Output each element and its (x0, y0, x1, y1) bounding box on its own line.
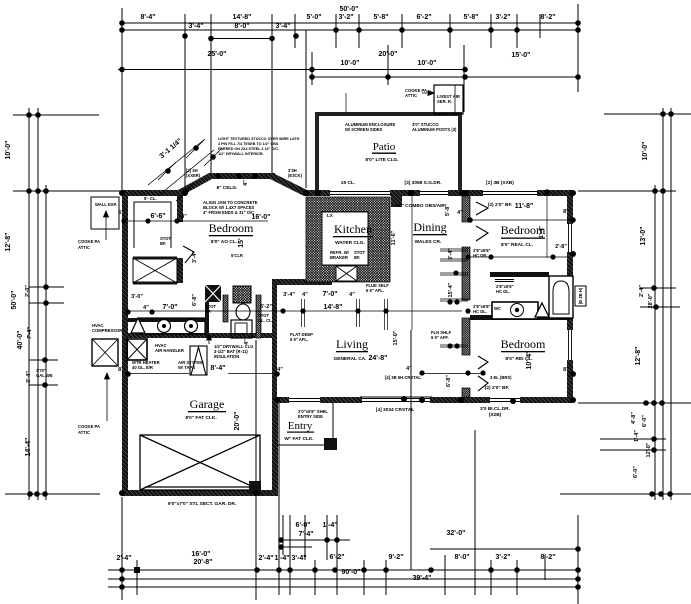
interior dim lines (128, 93, 573, 374)
svg-text:(B 2B H): (B 2B H) (578, 287, 583, 304)
svg-text:COOKE PA: COOKE PA (78, 239, 100, 244)
svg-text:10'-4": 10'-4" (526, 351, 533, 370)
bathtub (549, 276, 573, 318)
svg-text:50'-0": 50'-0" (340, 6, 359, 13)
svg-text:W/ SCREEN SIDES: W/ SCREEN SIDES (345, 127, 383, 132)
svg-text:8'0" LITE CLG.: 8'0" LITE CLG. (365, 157, 398, 163)
top row dots (119, 20, 125, 26)
svg-text:1'-4": 1'-4" (322, 522, 337, 529)
wall pier below top wall (391, 196, 402, 207)
svg-text:5'- CL.: 5'- CL. (144, 196, 157, 201)
svg-text:9'-2": 9'-2" (388, 554, 403, 561)
svg-text:20'-0": 20'-0" (234, 412, 241, 431)
svg-text:HC DR.: HC DR. (473, 253, 487, 258)
bath-left counter (139, 318, 205, 334)
svg-text:4": 4" (181, 214, 187, 220)
svg-text:10'-0": 10'-0" (642, 142, 649, 161)
left col dots (26, 112, 32, 118)
svg-text:INSULATION: INSULATION (214, 354, 239, 359)
svg-text:11'-8": 11'-8" (515, 203, 534, 210)
svg-text:GAL WE: GAL WE (36, 373, 53, 378)
svg-text:11'-6": 11'-6" (391, 230, 397, 245)
svg-text:6'-2": 6'-2" (329, 554, 344, 561)
svg-text:4": 4" (302, 292, 308, 298)
svg-text:2'-8": 2'-8" (555, 244, 567, 250)
svg-text:8" CELG.: 8" CELG. (217, 185, 238, 191)
right col dots (660, 111, 666, 117)
svg-text:8": 8" (118, 367, 124, 373)
medicine cabinet bump (575, 286, 586, 306)
diagonal bay dimension lines (148, 139, 222, 201)
attic ladder rect (190, 346, 207, 375)
svg-text:6'-0": 6'-0" (642, 415, 648, 427)
svg-text:15'-4": 15'-4" (448, 282, 454, 297)
bottom dimension line 32'-0" (430, 548, 578, 550)
svg-text:(2) 2'0" BF.: (2) 2'0" BF. (488, 202, 512, 208)
patio left wall (315, 114, 319, 191)
left dimension ticks (13, 114, 99, 116)
top dimension line 20'-0" (311, 52, 313, 85)
svg-text:2'-4": 2'-4" (639, 285, 645, 297)
svg-text:AIR HANDLER: AIR HANDLER (155, 348, 184, 353)
patio top wall (315, 112, 462, 116)
svg-text:2'-0": 2'-0" (25, 285, 31, 297)
svg-text:BF.: BF. (160, 241, 166, 246)
svg-text:5'-0": 5'-0" (306, 14, 321, 21)
bottom extension ticks (121, 497, 123, 600)
svg-text:7'-4": 7'-4" (27, 327, 33, 339)
svg-text:8'0" AO CL.: 8'0" AO CL. (211, 239, 237, 245)
svg-text:3 EL (BRS): 3 EL (BRS) (490, 375, 512, 380)
svg-text:ATTIC: ATTIC (78, 430, 90, 435)
bottom dimension cluster line 7'-4" (279, 539, 350, 541)
bath-left top wall (128, 318, 205, 322)
svg-text:8'-2": 8'-2" (540, 554, 555, 561)
svg-text:25'-0": 25'-0" (208, 51, 227, 58)
svg-text:1'-4": 1'-4" (539, 226, 545, 238)
left dimension column verticals (28, 108, 30, 500)
svg-text:(2) 2'0" BF.: (2) 2'0" BF. (485, 385, 509, 391)
bay top wall (209, 173, 275, 179)
svg-text:5'-8": 5'-8" (373, 14, 388, 21)
svg-text:7'-0": 7'-0" (162, 304, 177, 311)
svg-text:GL. CL.: GL. CL. (258, 318, 273, 323)
cooke pa attic arrows (104, 91, 435, 422)
svg-text:8'-0": 8'-0" (234, 23, 249, 30)
svg-text:Patio: Patio (373, 141, 396, 153)
svg-text:4": 4" (349, 292, 355, 298)
entry dark block (324, 438, 337, 450)
kitchen bottom-left wall (272, 279, 332, 285)
svg-text:14'-8": 14'-8" (233, 14, 252, 21)
svg-text:WALL EXP.: WALL EXP. (95, 202, 117, 207)
svg-text:Bedroom: Bedroom (501, 337, 546, 351)
svg-text:10'-0": 10'-0" (5, 141, 12, 160)
svg-text:9'0"x7'0" STL SECT. GAR. DR.: 9'0"x7'0" STL SECT. GAR. DR. (168, 501, 236, 507)
svg-text:10'-0": 10'-0" (341, 60, 360, 67)
WC wall left (205, 295, 209, 338)
svg-text:12'-8": 12'-8" (5, 233, 12, 252)
svg-text:3'-2": 3'-2" (338, 14, 353, 21)
svg-text:1/2" DRYWALL INTERIOR.: 1/2" DRYWALL INTERIOR. (218, 152, 264, 156)
svg-text:[4] 3034 CRSTAL: [4] 3034 CRSTAL (376, 407, 414, 413)
svg-text:SER. R.: SER. R. (437, 99, 452, 104)
svg-text:8": 8" (563, 209, 569, 215)
garage right column block (249, 481, 261, 494)
svg-text:3'-2": 3'-2" (495, 14, 510, 21)
svg-text:3'-4": 3'-4" (26, 371, 32, 383)
svg-text:20'-8": 20'-8" (194, 559, 213, 566)
bottom dimension line2 (108, 578, 578, 580)
svg-text:4" FROM ENDS & 31" O/C: 4" FROM ENDS & 31" O/C (203, 210, 254, 215)
svg-text:6'-6": 6'-6" (150, 213, 165, 220)
svg-text:14'-8": 14'-8" (324, 304, 343, 311)
kitchen crosshatched ring (306, 197, 390, 282)
svg-text:3'-2": 3'-2" (495, 554, 510, 561)
svg-text:3'-0": 3'-0" (131, 294, 143, 300)
pantry crosshatch block (336, 266, 357, 281)
svg-text:LIGHT TEXTURED STUCCO OVER WIR: LIGHT TEXTURED STUCCO OVER WIRE LATH (218, 137, 300, 141)
svg-text:GENERAL CA.: GENERAL CA. (334, 356, 367, 362)
window glazing top wall (330, 192, 537, 195)
svg-text:5'CLR: 5'CLR (231, 253, 243, 258)
svg-text:WC: WC (494, 306, 501, 311)
svg-text:HC DL.: HC DL. (496, 289, 510, 294)
svg-text:6 9" AFL.: 6 9" AFL. (366, 288, 384, 293)
svg-text:6'-2": 6'-2" (260, 304, 272, 310)
top dimension line row3 (118, 69, 465, 71)
svg-text:90'-0": 90'-0" (342, 569, 361, 576)
WC vanity (231, 320, 252, 338)
svg-text:LX: LX (327, 213, 333, 218)
svg-text:6'-8": 6'-8" (446, 375, 452, 387)
bottom dots (278, 537, 284, 543)
svg-text:15': 15' (238, 238, 245, 248)
svg-text:8": 8" (563, 367, 569, 373)
svg-text:4": 4" (457, 210, 463, 216)
svg-text:3'-4": 3'-4" (188, 23, 203, 30)
svg-text:6'-0": 6'-0" (633, 466, 639, 478)
svg-text:8'0" REAL CL.: 8'0" REAL CL. (501, 242, 533, 248)
svg-text:BF.: BF. (354, 255, 360, 260)
left dim labels rotated (5, 141, 33, 457)
svg-text:8'-4": 8'-4" (140, 14, 155, 21)
svg-text:ENTRY SIDE: ENTRY SIDE (298, 414, 323, 419)
svg-text:(X2B): (X2B) (489, 412, 502, 418)
svg-text:BRAKER: BRAKER (330, 255, 348, 260)
bath top wall (490, 272, 549, 277)
svg-text:15'-0": 15'-0" (512, 52, 531, 59)
top dimension line row1 (122, 22, 578, 24)
svg-text:7'-0": 7'-0" (322, 291, 337, 298)
svg-text:COOKE PA: COOKE PA (78, 424, 100, 429)
svg-text:12'-0": 12'-0" (646, 442, 652, 457)
patio attic access box (434, 85, 463, 114)
bath-left door triangle (131, 318, 145, 333)
svg-text:28'-0": 28'-0" (648, 293, 654, 308)
small annotation text blocks (36, 88, 514, 435)
bedroom1 wing door symbols (476, 202, 488, 391)
svg-text:[2] 3B (XXB): [2] 3B (XXB) (486, 180, 514, 186)
svg-text:4": 4" (143, 305, 149, 311)
svg-text:50'-0": 50'-0" (11, 291, 18, 310)
svg-text:20'-0": 20'-0" (379, 51, 398, 58)
svg-text:40 GL. E/R: 40 GL. E/R (132, 365, 153, 370)
bath vanity counter (492, 302, 538, 319)
closet wall stub lower (177, 258, 183, 283)
svg-text:14'-4": 14'-4" (25, 438, 32, 457)
svg-text:15'-0": 15'-0" (393, 330, 399, 345)
svg-text:Living: Living (336, 337, 368, 351)
svg-text:W" FAT CLK.: W" FAT CLK. (284, 436, 313, 442)
hall wall left of kitchen (272, 279, 277, 397)
svg-text:5'-8": 5'-8" (463, 14, 478, 21)
bottom exterior wall with gaps (277, 397, 289, 403)
svg-text:5'-8": 5'-8" (445, 204, 451, 216)
svg-text:[4] 3B 5H CRSTAL: [4] 3B 5H CRSTAL (385, 375, 421, 380)
bay diagonal wall left (178, 173, 212, 196)
left exterior wall (122, 190, 128, 496)
svg-text:8'-4": 8'-4" (210, 365, 225, 372)
svg-text:Bedroom: Bedroom (209, 221, 254, 235)
WC toilet (236, 304, 250, 320)
svg-text:12'-8": 12'-8" (635, 347, 642, 366)
svg-text:Garage: Garage (190, 397, 225, 411)
svg-text:8'0" FAT CLK.: 8'0" FAT CLK. (185, 415, 216, 421)
svg-text:24'-8": 24'-8" (369, 355, 388, 362)
bottom dimension main line (108, 569, 578, 571)
right dimension column verticals (654, 185, 656, 500)
closet top-left (134, 202, 171, 248)
svg-text:ALUMINUM POSTS (3): ALUMINUM POSTS (3) (412, 127, 457, 132)
garage door x-box (140, 435, 260, 490)
rotated interior dims (159, 138, 583, 431)
top dim labels (140, 6, 555, 67)
garage top wall (128, 333, 277, 338)
svg-text:6 9" AFL.: 6 9" AFL. (290, 337, 308, 342)
right exterior wall with window gaps (567, 190, 573, 224)
svg-text:8'-2": 8'-2" (540, 14, 555, 21)
svg-text:Entry: Entry (288, 420, 313, 432)
svg-text:6'-8": 6'-8" (192, 294, 198, 306)
svg-text:6 9" AFF.: 6 9" AFF. (431, 335, 449, 340)
svg-text:[3] 3068 S.G.DR.: [3] 3068 S.G.DR. (404, 180, 441, 186)
top exterior wall with window gaps (304, 190, 330, 196)
svg-text:2'-4": 2'-4" (116, 555, 131, 562)
water heater x-box (127, 339, 147, 360)
wall exp balloon box (91, 197, 119, 229)
svg-text:4 PIN FILL 7/4 TESEB TO 1/2" C: 4 PIN FILL 7/4 TESEB TO 1/2" CBS (218, 142, 279, 146)
svg-text:BF.: BF. (205, 309, 211, 314)
entry closet lines (278, 403, 333, 445)
right dimension ticks (604, 113, 691, 115)
svg-text:HC DL.: HC DL. (473, 309, 487, 314)
svg-text:1'-4": 1'-4" (274, 555, 289, 562)
bedroom1 door (183, 246, 194, 263)
top dimension segment 8'-0" (211, 38, 272, 40)
svg-text:WATER CLG.: WATER CLG. (335, 240, 365, 246)
svg-text:6'-2": 6'-2" (416, 14, 431, 21)
linen x-box (133, 257, 177, 285)
top-left exterior wall (122, 190, 185, 196)
bath toilet triangle (535, 303, 549, 317)
svg-text:6'-0": 6'-0" (295, 522, 310, 529)
svg-text:16'-0": 16'-0" (252, 214, 271, 221)
right dim labels rotated (631, 142, 654, 478)
svg-text:WALES CR.: WALES CR. (415, 239, 442, 245)
svg-text:7'-4": 7'-4" (298, 531, 313, 538)
WC wall right (223, 295, 228, 322)
svg-text:4": 4" (406, 366, 412, 372)
top dimension line row2 (122, 29, 578, 31)
hvac compressor box outside (92, 339, 118, 366)
svg-text:4'-8": 4'-8" (631, 412, 637, 424)
svg-text:ATTIC: ATTIC (78, 245, 90, 250)
flue block dark (205, 285, 221, 302)
svg-text:4": 4" (277, 367, 283, 373)
svg-text:3'-4": 3'-4" (275, 23, 290, 30)
svg-text:3'-4": 3'-4" (283, 292, 295, 298)
svg-text:3'-4": 3'-4" (448, 248, 454, 260)
svg-text:40'-0": 40'-0" (17, 331, 24, 350)
svg-text:3'0 BI.CL.DR.: 3'0 BI.CL.DR. (480, 406, 510, 412)
junction dots on walls (119, 173, 576, 496)
svg-text:(XXER): (XXER) (186, 173, 201, 178)
bath bottom wall (470, 315, 573, 320)
interior dim texts (118, 180, 569, 507)
room labels (185, 141, 546, 442)
svg-text:Kitchen: Kitchen (334, 222, 372, 236)
interior wall bedrooms wing (462, 196, 470, 222)
flue block hatched (233, 286, 251, 303)
WC wall far right (256, 295, 261, 338)
entry left exterior wall (272, 397, 278, 496)
svg-text:Dining: Dining (413, 220, 446, 234)
svg-text:32'-0": 32'-0" (447, 530, 466, 537)
patio right wall (458, 114, 462, 191)
svg-text:FURRED ON 2X4 STEEL 4 16" O/C,: FURRED ON 2X4 STEEL 4 16" O/C, (218, 147, 279, 151)
svg-text:1'-4": 1'-4" (634, 430, 640, 442)
closet wall stub upper (177, 196, 183, 222)
garage bottom exterior wall (122, 490, 278, 496)
svg-text:4": 4" (243, 180, 249, 186)
bath-left sink2 (185, 320, 198, 333)
bay diagonal wall right (270, 173, 307, 196)
top extension ticks (121, 8, 123, 190)
svg-text:COMPRESSOR: COMPRESSOR (92, 328, 122, 333)
svg-text:ATTIC: ATTIC (405, 93, 417, 98)
svg-text:39'-4": 39'-4" (413, 575, 432, 582)
svg-text:1'0" COMBO OBS/AIR: 1'0" COMBO OBS/AIR (395, 203, 445, 209)
svg-text:16'-0": 16'-0" (192, 551, 211, 558)
svg-text:8'-0": 8'-0" (454, 554, 469, 561)
bath-left sink1 (158, 320, 171, 333)
svg-text:6": 6" (118, 210, 124, 216)
bath sink (511, 304, 524, 317)
svg-text:(E3CK): (E3CK) (288, 173, 303, 178)
svg-text:2'-4": 2'-4" (258, 555, 273, 562)
bottom dimension line3 (108, 586, 578, 588)
svg-text:W/ TAPS: W/ TAPS (178, 365, 195, 370)
svg-text:15 CL.: 15 CL. (341, 180, 355, 186)
svg-text:3'-4": 3'-4" (291, 555, 306, 562)
svg-text:10'-0": 10'-0" (418, 60, 437, 67)
bottom dim labels (116, 522, 555, 582)
svg-text:3'-4": 3'-4" (192, 251, 198, 263)
svg-text:13'-0": 13'-0" (640, 227, 647, 246)
